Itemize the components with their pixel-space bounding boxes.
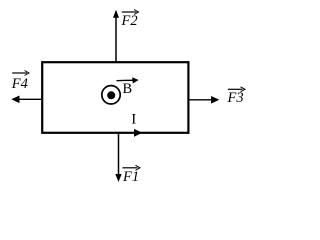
- label B with vector arrow: [117, 77, 139, 97]
- force arrow F2 (up, from top side): [113, 10, 119, 62]
- svg-text:F4: F4: [11, 76, 28, 92]
- svg-text:B: B: [123, 81, 133, 97]
- label F4: [11, 71, 29, 93]
- current arrow I (on bottom side, pointing right): [134, 129, 142, 137]
- svg-text:F3: F3: [227, 90, 244, 106]
- field symbol B (out of page: circle with dot): [102, 86, 120, 104]
- svg-text:F1: F1: [122, 169, 139, 185]
- label F2: [121, 10, 139, 30]
- force arrow F4 (left, from left side): [11, 96, 42, 104]
- wire rectangular current loop: [42, 62, 188, 133]
- label I: [131, 112, 136, 128]
- svg-text:F2: F2: [121, 13, 138, 29]
- label F1: [122, 165, 140, 185]
- svg-text:I: I: [131, 112, 136, 128]
- force arrow F3 (right, from right side): [189, 96, 219, 104]
- label F3: [227, 87, 246, 106]
- force arrow F1 (down, from bottom side): [115, 133, 121, 182]
